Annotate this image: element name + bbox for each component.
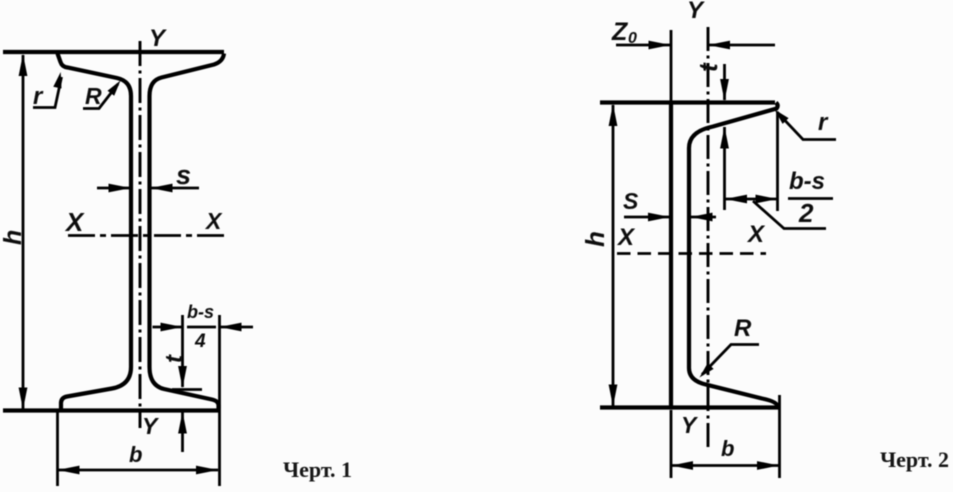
I-beam outline: right side profile — [150, 54, 225, 410]
leader r (left figure) — [33, 72, 62, 108]
svg-text:2: 2 — [798, 198, 814, 228]
axis Y centerline (left figure) — [139, 41, 142, 428]
svg-text:Черт. 2: Черт. 2 — [880, 447, 949, 472]
svg-text:R: R — [734, 315, 752, 342]
svg-text:s: s — [176, 160, 191, 190]
channel outline: web back face — [669, 103, 673, 406]
t thickness mark line and up arrow (left figure) — [172, 390, 202, 453]
svg-text:h: h — [0, 230, 27, 245]
axis X line (channel, dashed) — [617, 252, 766, 255]
svg-text:b: b — [721, 436, 734, 461]
dimension t (channel): down arrow — [720, 64, 729, 101]
dimension (b-s)/2 — [725, 195, 778, 204]
svg-text:Y: Y — [681, 412, 699, 438]
svg-text:X: X — [64, 207, 85, 237]
svg-text:b: b — [129, 442, 142, 467]
svg-text:r: r — [33, 83, 44, 110]
svg-text:X: X — [616, 224, 636, 251]
dimension (b-s)/4 — [153, 323, 254, 332]
svg-text:b-s: b-s — [789, 168, 825, 195]
I-beam outline: left side profile — [58, 54, 132, 410]
svg-text:S: S — [623, 188, 639, 214]
leader for (b-s)/2 fraction — [753, 201, 826, 229]
channel outline: top face — [600, 100, 775, 104]
dimension h (channel) — [609, 104, 618, 407]
svg-text:R: R — [85, 83, 102, 109]
svg-text:Черт. 1: Черт. 1 — [283, 457, 352, 482]
leader R (left figure) — [83, 81, 121, 109]
extension line right (flange edge, shared by (b-s)/4 and b) — [218, 315, 221, 486]
I-beam outline: bottom face — [3, 408, 219, 412]
svg-text:b-s: b-s — [187, 302, 214, 322]
dimension S (channel web thickness) — [624, 213, 716, 222]
extension line at flange toe (channel top) — [776, 112, 779, 211]
dimension h (left): line and arrows — [19, 54, 28, 410]
dimension b (channel) — [671, 395, 780, 478]
leader r (channel) — [775, 110, 837, 140]
channel outline: bottom face — [600, 405, 779, 409]
svg-text:4: 4 — [194, 331, 206, 352]
dimension b (left figure) — [58, 412, 219, 486]
svg-text:h: h — [580, 231, 610, 247]
extension line at (b-s)/4 left / t arrow line — [178, 315, 187, 388]
dimension t (channel): up arrow / extension to (b-s)/2 — [720, 127, 729, 211]
dimension Z0 — [616, 41, 775, 50]
leader R (channel) — [700, 345, 760, 378]
dimension s (web thickness) — [97, 184, 199, 193]
channel outline: inner profile — [689, 103, 779, 408]
I-beam outline: top face — [3, 50, 224, 54]
svg-text:t: t — [693, 62, 723, 72]
svg-text:Y: Y — [687, 0, 705, 24]
svg-text:X: X — [746, 221, 766, 248]
svg-text:X: X — [204, 208, 223, 234]
axis X centerline (left figure) — [68, 234, 226, 237]
svg-text:0: 0 — [628, 30, 637, 47]
svg-text:Y: Y — [149, 25, 167, 52]
svg-text:Z: Z — [611, 18, 629, 46]
Z0 extension line (back face extended up) — [670, 30, 673, 101]
svg-text:r: r — [818, 109, 829, 136]
svg-text:t: t — [161, 354, 188, 363]
axis Y centerline (channel) — [707, 27, 710, 450]
svg-text:Y: Y — [142, 413, 160, 439]
